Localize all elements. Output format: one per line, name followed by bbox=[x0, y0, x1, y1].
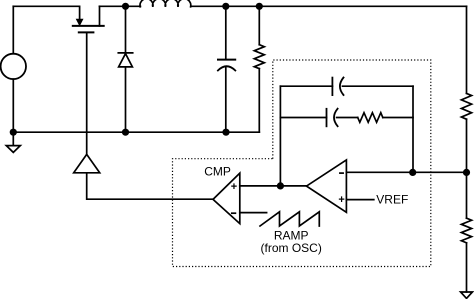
node: top rail / resistor junction bbox=[256, 3, 263, 10]
label error amp - input bbox=[340, 172, 343, 174]
diode (catch diode, cathode up) bbox=[118, 53, 132, 67]
op-amp error amplifier bbox=[307, 160, 347, 212]
transistor pass MOSFET gate bar bbox=[79, 31, 94, 33]
capacitor feedback C1 curved plate bbox=[340, 78, 344, 96]
wire: MOSFET source up to top rail bbox=[99, 6, 101, 26]
wire: left source branch vertical (top) bbox=[12, 6, 14, 53]
controller boundary (dotted box) bbox=[173, 60, 431, 267]
capacitor output (polarized): straight plate bbox=[218, 59, 235, 61]
ramp waveform (sawtooth from OSC) bbox=[260, 212, 319, 226]
wire: feedback second branch left bbox=[280, 117, 326, 119]
wire: output resistor branch top bbox=[258, 6, 260, 44]
resistor load (vertical zigzag) bbox=[254, 45, 264, 69]
wire: MOSFET gate line down to driver bbox=[86, 32, 88, 154]
capacitor feedback C2 curved plate bbox=[334, 109, 338, 127]
node: top rail / diode junction bbox=[122, 3, 129, 10]
wire: feedback second branch right bbox=[383, 117, 413, 119]
transistor pass MOSFET arrow (drain) bbox=[77, 19, 83, 25]
wire: bottom rail bbox=[13, 131, 259, 133]
wire: diode branch top bbox=[125, 6, 127, 53]
svg-text:(from OSC): (from OSC) bbox=[261, 241, 322, 255]
svg-text:VREF: VREF bbox=[376, 192, 408, 206]
node: error amp output / feedback junction bbox=[277, 182, 284, 189]
wire: error amp + input stub to VREF bbox=[346, 199, 373, 201]
transistor pass MOSFET channel bar bbox=[73, 25, 104, 27]
wire: feedback network left vertical bbox=[279, 86, 281, 186]
node: bottom rail / source junction bbox=[10, 129, 17, 136]
capacitor feedback C2 straight plate bbox=[326, 109, 328, 127]
ground (right, divider return) bbox=[461, 292, 473, 298]
wire: driver input down and right to CMP output bbox=[87, 173, 214, 199]
node: bottom rail / diode junction bbox=[122, 129, 129, 136]
capacitor feedback C1 straight plate bbox=[331, 78, 333, 96]
wire: CMP - input stub bbox=[240, 212, 267, 214]
node: divider tap junction bbox=[463, 169, 470, 176]
resistor feedback divider lower bbox=[461, 218, 471, 243]
wire: output capacitor branch bottom bbox=[225, 67, 227, 132]
resistor feedback divider upper bbox=[461, 93, 471, 119]
wire: feedback top branch right bbox=[343, 85, 414, 87]
wire: right rail bottom bbox=[466, 243, 468, 292]
node: top rail / capacitor junction bbox=[222, 3, 229, 10]
resistor feedback (horizontal zigzag) bbox=[358, 113, 383, 123]
svg-text:+: + bbox=[338, 194, 344, 206]
wire: CMP + input to error amp output bbox=[240, 185, 307, 187]
inductor L (4 clipped loops) bbox=[140, 0, 191, 7]
wire: top rail from inductor to top-right corner bbox=[191, 5, 467, 7]
ground (left, input return) bbox=[6, 132, 20, 152]
voltage source (input) bbox=[1, 54, 26, 79]
wire: output capacitor branch top bbox=[225, 6, 227, 59]
wire: error amp - input to divider tap bbox=[346, 171, 466, 173]
wire: feedback network right vertical bbox=[412, 86, 414, 172]
op-amp comparator CMP bbox=[213, 173, 240, 223]
wire: output resistor branch bottom bbox=[258, 69, 260, 133]
node: feedback network / - input junction bbox=[409, 169, 416, 176]
wire: feedback top branch left bbox=[280, 85, 332, 87]
wire: top rail from MOSFET source to inductor bbox=[100, 5, 141, 7]
node: bottom rail / capacitor junction bbox=[222, 129, 229, 136]
label CMP - input bbox=[232, 212, 236, 214]
wire: left source branch vertical (bottom) bbox=[12, 79, 14, 132]
wire: right rail top bbox=[466, 6, 468, 93]
wire: feedback second branch middle bbox=[337, 117, 358, 119]
wire: right rail middle bbox=[466, 119, 468, 218]
capacitor output curved plate bbox=[218, 66, 235, 70]
op-amp gate driver buffer bbox=[74, 154, 100, 172]
wire: top rail left segment (source to MOSFET drain) bbox=[13, 6, 79, 19]
wire: diode branch bottom bbox=[125, 67, 127, 132]
svg-text:CMP: CMP bbox=[204, 165, 231, 179]
svg-text:+: + bbox=[231, 181, 237, 193]
